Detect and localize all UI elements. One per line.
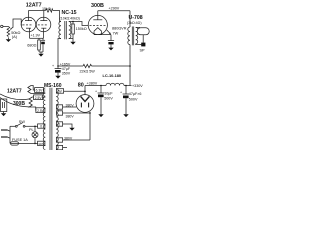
svg-text:(A): (A) [12,34,18,39]
filament 12AT7 heater [28,86,31,94]
wire NC-15 primary bottom to B+ [58,39,61,67]
wire channel link curves [0,94,29,100]
svg-text:300B: 300B [91,3,104,9]
svg-text:FUSE 1A: FUSE 1A [12,138,28,142]
svg-text:NC-15: NC-15 [62,10,77,16]
svg-text:7W: 7W [113,31,119,35]
svg-text:+: + [120,91,122,95]
wire 300B cathode [94,34,111,36]
tube V4 rectifier 80 [76,95,94,113]
wire 5V winding to filament [64,90,85,92]
svg-text:SP: SP [140,48,146,52]
wire secondary top to speaker [136,26,140,28]
node junction [72,21,74,23]
capacitor C1 cathode bypass [42,38,44,40]
svg-text:380V: 380V [66,115,75,119]
svg-text:10µF: 10µF [104,91,113,95]
svg-text:MS-160: MS-160 [44,83,62,89]
svg-text:680Ω: 680Ω [27,43,36,47]
terminal box 2.5V b [36,108,45,113]
ground (pot) [6,37,11,42]
svg-text:(3kΩ:4Ω): (3kΩ:4Ω) [127,21,142,25]
svg-text:100V: 100V [38,142,44,146]
wire NC-15 secondary bottom [69,38,73,40]
svg-text:12AT7: 12AT7 [26,3,42,9]
svg-text:+290V: +290V [109,7,120,11]
ground (grid return) [70,40,75,45]
input jack J1 [1,25,3,27]
terminal box aux [56,145,62,149]
capacitor C4 10uF 500V [100,85,102,87]
svg-text:+165V: +165V [60,62,71,66]
wire U-708 primary bottom to B+ [129,45,131,86]
wire plate B tap [63,112,90,114]
tube V3 300B [88,15,107,34]
svg-text:300B: 300B [13,101,25,107]
ground (C5) [123,113,128,118]
svg-text:PL: PL [29,128,34,132]
ground (HT center tap) [69,126,74,131]
terminal box 2.5V a [34,95,43,100]
svg-text:15kΩ: 15kΩ [42,7,51,11]
svg-text:+: + [52,64,54,68]
terminal box 380V c [56,138,62,142]
ground (decoupling cap) [55,74,60,79]
svg-text:880ΩVR: 880ΩVR [112,26,127,30]
AC plug [9,126,11,143]
terminal box 380V a [56,105,62,109]
capacitor C5 47uFx6 500V [125,85,127,87]
wire cathode ground bus [39,51,43,53]
wire V2 plate riser [43,11,45,21]
terminal box primary 100V [38,141,45,145]
svg-text:500V: 500V [129,97,138,101]
wire wiper to V1 grid [13,19,22,28]
wiper arrow [11,27,13,29]
wire V1 cathode lead [29,28,31,38]
svg-text:350V: 350V [62,72,71,76]
svg-text:22kΩ 5W: 22kΩ 5W [80,69,96,73]
svg-text:380V: 380V [64,136,73,140]
wire lower HT tap [63,139,90,141]
svg-text:(10kΩ:40kΩ): (10kΩ:40kΩ) [60,16,80,20]
wire CT to ground [63,124,72,126]
wire B+ rail to driver [58,65,83,67]
wire V2 cathode lead [43,28,45,38]
wire to NC-15 primary [53,11,61,22]
ground (C4) [98,113,103,118]
resistor R6 22k 5W [83,64,92,67]
svg-text:0: 0 [58,123,60,127]
svg-text:47µF: 47µF [62,67,71,71]
svg-text:6.3V: 6.3V [36,89,44,93]
svg-text:+330V: +330V [132,84,143,88]
triode V2 (12AT7 b) [36,17,51,32]
wire jack to pot [3,25,8,27]
svg-text:2.5V: 2.5V [35,96,43,100]
svg-text:500V: 500V [104,96,113,100]
capacitor C2 cathode bypass [108,40,114,42]
terminal box CT 0 [56,122,62,126]
terminal box 5V [56,89,63,94]
svg-text:+380V: +380V [87,82,98,86]
potentiometer VR1 50k(A) [7,26,10,36]
speaker SP [137,28,149,35]
wire 300B plate [97,11,99,20]
hum balance arrow [107,30,110,33]
wire B+ takeoff [84,86,86,92]
svg-text:80: 80 [78,83,84,89]
resistor R3 680 cathode [38,40,41,50]
terminal box primary 0 [38,124,45,128]
wire plate A [63,106,77,108]
svg-text:+1.9V: +1.9V [31,33,41,37]
ground (aux box) [1,112,6,117]
filament 300B heater [29,97,32,107]
wire secondary bottom [136,43,144,46]
terminal box 380V b [56,111,62,115]
triode V1 (12AT7 a) [21,17,36,32]
wire cathode bus [30,37,44,39]
svg-text:47µF×6: 47µF×6 [129,92,142,96]
wire plate top line [29,10,46,12]
ground (300B cathode) [108,46,113,51]
svg-text:380V: 380V [66,103,75,107]
aux box (to other channel) [1,99,7,112]
ground (12AT7 cathode) [38,52,43,57]
resistor R2 15k [46,9,53,12]
svg-text:150kΩ: 150kΩ [76,27,87,31]
wire B+ line [85,85,106,87]
resistor R4 150k grid [72,22,74,25]
svg-text:12AT7: 12AT7 [7,88,22,94]
svg-text:LC-10-180: LC-10-180 [103,73,122,78]
filament 300B [94,28,102,32]
svg-text:0: 0 [40,125,42,129]
svg-text:+: + [95,90,97,94]
terminal box 6.3V [35,88,44,93]
wire V1 plate riser [28,11,30,21]
wire NC-15 secondary top to 300B grid [69,22,88,26]
